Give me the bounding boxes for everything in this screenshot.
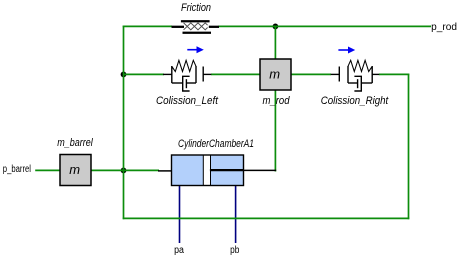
wire: m_rod to Colission_Right [292,73,332,75]
wire: junction to Colission_Left [123,73,164,75]
wire: right vertical bus [408,74,410,220]
pin pa [179,186,181,243]
svg-text:m: m [269,67,280,82]
svg-text:p_barrel: p_barrel [3,164,31,175]
svg-text:CylinderChamberA1: CylinderChamberA1 [178,138,254,150]
svg-text:m: m [69,162,80,177]
spring-damper Colission_Left [163,60,211,91]
svg-text:m_barrel: m_barrel [57,137,93,149]
arrow above Colission_Left [187,46,204,53]
svg-text:p_rod: p_rod [431,22,457,33]
wire: Colission_Right to right bus [379,73,409,75]
wire: Colission_Left to m_rod [211,73,260,75]
pin pb [235,186,237,243]
wire: top bus from left corner to p_rod [123,25,431,27]
spring-damper Colission_Right [331,60,380,91]
wire: bottom bus [123,217,410,219]
svg-text:Colission_Right: Colission_Right [321,95,389,107]
svg-text:pb: pb [230,245,240,256]
mass m_rod [260,59,291,90]
wire: m_barrel to cylinder [91,169,159,171]
mass m_barrel [60,155,91,186]
svg-text:Friction: Friction [181,2,211,14]
svg-text:m_rod: m_rod [263,95,291,107]
arrow above Colission_Right [338,47,355,54]
friction element symbol [172,21,220,33]
junction node at top wire [273,24,279,30]
wire: p_barrel to m_barrel [35,169,61,171]
svg-text:Colission_Left: Colission_Left [156,95,219,107]
junction node left bus upper [121,72,127,78]
junction node left bus lower [121,168,127,174]
svg-text:pa: pa [174,245,184,256]
wire: m_rod down to piston rod [274,91,276,172]
cylinder CylinderChamberA1 [158,155,276,186]
wire: top junction down to m_rod [274,26,276,59]
wire: left vertical bus [123,26,125,220]
